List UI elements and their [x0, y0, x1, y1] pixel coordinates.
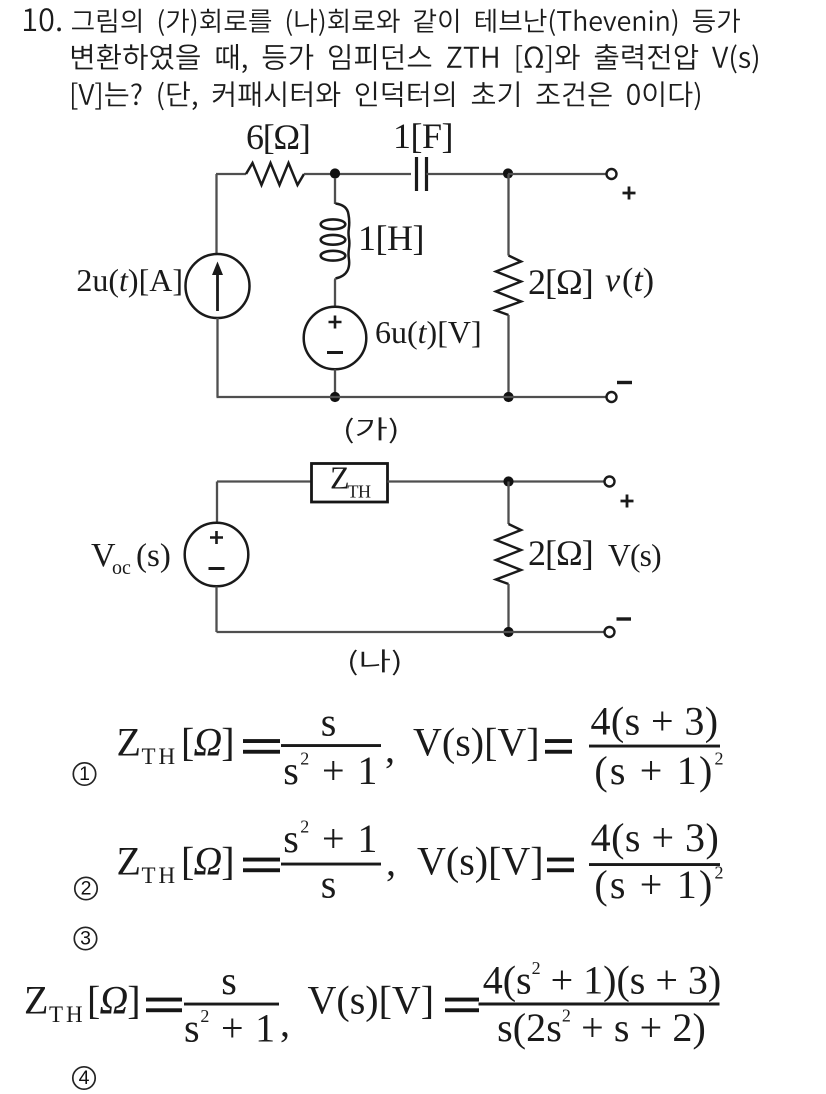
bottom wire (na) [217, 631, 604, 633]
svg-text:,: , [386, 839, 396, 884]
header line 1 problem number [24, 8, 61, 31]
resistor 2 ohm (ga) [496, 256, 593, 316]
wire resistor to node A [304, 173, 411, 175]
resistor 6 ohm [246, 117, 310, 185]
header line 3 korean text [72, 81, 700, 110]
plus label top right (ga) [623, 187, 636, 200]
formula option 2 [117, 815, 726, 907]
wire node C down to resistor (na) [507, 482, 509, 525]
svg-text:(s): (s) [136, 538, 171, 574]
svg-text:s2​ + 1: s2​ + 1 [283, 816, 379, 861]
wire left vertical upper (na) [216, 482, 218, 524]
wire voltage source to bottom node [334, 369, 336, 397]
formula option 3 [24, 958, 721, 1051]
answer number 4 [73, 1067, 95, 1089]
wire node A down to inductor [334, 178, 336, 204]
svg-text:TH: TH [142, 744, 179, 769]
bottom node dot right (ga) [503, 392, 513, 402]
caption (na) [350, 649, 400, 675]
formula option 1 [117, 699, 726, 794]
caption (ga) [346, 417, 397, 443]
svg-text:Z: Z [117, 839, 141, 884]
voltage source Voc(s) [91, 523, 248, 587]
header line 2 korean text [72, 44, 758, 73]
impedance box ZTH [312, 460, 388, 503]
wire box to node C [388, 480, 604, 482]
svg-text:6u(t)[V]: 6u(t)[V] [375, 314, 482, 350]
svg-text:1: 1 [79, 763, 90, 785]
current source 2u(t)A [76, 254, 249, 318]
wire top-left (na) [217, 480, 311, 482]
wire node B to output terminal [508, 173, 606, 175]
terminal + output (na) [605, 477, 615, 487]
svg-text:(s + 1)2​: (s + 1)2​ [594, 862, 725, 907]
svg-text:V(s): V(s) [608, 538, 661, 573]
svg-text:3: 3 [80, 928, 91, 950]
svg-text:v: v [605, 262, 621, 299]
bottom wire (ga) [217, 396, 607, 398]
svg-text:oc: oc [112, 557, 131, 579]
svg-text:2: 2 [81, 878, 92, 900]
svg-text:[Ω]: [Ω] [181, 720, 234, 765]
terminal - output (na) [605, 627, 615, 637]
svg-text:1[H]: 1[H] [358, 218, 424, 258]
svg-text:(s + 1)2​: (s + 1)2​ [594, 748, 725, 793]
svg-text:(t): (t) [622, 262, 654, 299]
answer number 2 [75, 877, 97, 899]
wire node B down to resistor 2ohm [507, 174, 509, 256]
svg-text:s2​ + 1: s2​ + 1 [283, 748, 379, 793]
svg-text:[Ω]: [Ω] [181, 839, 234, 884]
inductor 1H [321, 204, 424, 279]
svg-text:s: s [321, 862, 337, 907]
wire resistor 2ohm to bottom [507, 315, 509, 397]
wire inductor to voltage source [334, 279, 337, 308]
svg-text:V(s)[V]: V(s)[V] [413, 720, 540, 765]
plus label top right (na) [621, 495, 634, 508]
svg-text:,: , [385, 726, 395, 771]
answer number 1 [73, 763, 95, 785]
svg-text:s: s [221, 958, 237, 1003]
svg-text:4: 4 [79, 1067, 90, 1089]
node B junction dot [503, 168, 513, 178]
answer number 3 [74, 927, 96, 949]
svg-text:s: s [321, 700, 337, 745]
minus label bottom right (ga) [617, 381, 632, 384]
svg-text:2[Ω]: 2[Ω] [528, 533, 593, 573]
minus label bottom right (na) [617, 617, 632, 620]
svg-text:4(s + 3): 4(s + 3) [591, 815, 720, 860]
svg-text:V(s)[V]: V(s)[V] [417, 839, 544, 884]
svg-text:4(s2​ + 1)(s + 3): 4(s2​ + 1)(s + 3) [483, 958, 722, 1003]
bottom node dot under voltage source [330, 392, 340, 402]
capacitor 1F [393, 116, 453, 191]
svg-text:[Ω]: [Ω] [87, 978, 140, 1023]
terminal - output (ga) [607, 392, 617, 402]
svg-text:TH: TH [49, 1002, 86, 1027]
svg-text:Z: Z [117, 720, 141, 765]
terminal + output (ga) [607, 169, 617, 179]
resistor 2 ohm (na) [496, 524, 593, 584]
header line 1 korean text [72, 9, 740, 36]
bottom node dot (na) [503, 627, 513, 637]
node A junction dot [330, 168, 340, 178]
svg-text:1[F]: 1[F] [393, 116, 453, 156]
wire capacitor to node B [427, 173, 504, 175]
wire resistor to bottom (na) [507, 584, 509, 632]
svg-text:V(s)[V]: V(s)[V] [308, 978, 435, 1023]
svg-text:s2​ + 1: s2​ + 1 [184, 1006, 276, 1051]
svg-text:TH: TH [142, 863, 179, 888]
voltage source 6u(t)V [304, 307, 482, 370]
svg-text:6[Ω]: 6[Ω] [246, 117, 310, 157]
svg-text:2u(t)[A]: 2u(t)[A] [76, 262, 183, 298]
wire left vertical lower (na) [215, 587, 217, 633]
wire top-left horizontal [216, 173, 246, 175]
svg-text:,: , [280, 1000, 290, 1045]
svg-text:4(s + 3): 4(s + 3) [591, 699, 719, 744]
node C junction dot [503, 476, 513, 486]
wire left vertical lower [216, 318, 218, 397]
svg-text:TH: TH [348, 482, 371, 502]
svg-text:s(2s2​ + s + 2): s(2s2​ + s + 2) [497, 1005, 706, 1050]
wire left vertical upper [215, 174, 217, 254]
svg-text:2[Ω]: 2[Ω] [528, 262, 593, 302]
svg-text:Z: Z [24, 978, 48, 1023]
